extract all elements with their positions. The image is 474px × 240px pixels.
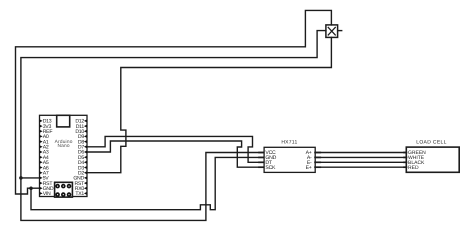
J1 pin stubs — [403, 153, 407, 168]
U1 ICSP header — [55, 182, 73, 197]
svg-text:TX1: TX1 — [75, 191, 84, 197]
wire GND net: lamp top pin to Arduino GND pin — [16, 10, 332, 194]
U1 left pin labels D13..VIN — [43, 119, 54, 198]
IC U1 Arduino Nano — [40, 115, 88, 197]
wire HX711 E- to load cell BLACK — [315, 161, 406, 163]
U1 USB connector notch — [57, 115, 70, 127]
wire HX711 E+ to load cell RED — [315, 166, 406, 168]
J1 pin labels GREEN WHITE BLACK RED — [408, 150, 426, 171]
U2 right pin labels A+ A- E- E+ — [306, 150, 312, 171]
U1 value label "Arduino Nano" — [55, 139, 73, 149]
U1 pin arrows — [40, 119, 87, 194]
lamp X1 (box with X symbol) — [326, 25, 343, 38]
U1 body — [40, 115, 88, 196]
svg-text:LOAD CELL: LOAD CELL — [416, 139, 447, 145]
wire D6 net: Arduino D6 to HX711 SCK — [87, 141, 264, 167]
U2 pin stubs — [258, 153, 321, 168]
U1 right pin labels D12..TX1 — [73, 119, 85, 198]
svg-text:VIN: VIN — [43, 191, 51, 197]
wire HX711 A+ to load cell GREEN — [315, 152, 406, 154]
svg-text:Nano: Nano — [57, 143, 69, 149]
wire D7 net: Arduino D7 to HX711 DT — [87, 136, 264, 162]
svg-text:SCK: SCK — [265, 165, 276, 171]
wire HX711 A- to load cell WHITE — [315, 156, 406, 158]
wire D2 net: lamp bottom pin to Arduino D2 pin (jog crossing) — [87, 37, 331, 172]
wire 5V net: lamp left pin to HX711 VCC pin — [21, 31, 326, 221]
junction dot GND net — [29, 186, 33, 190]
U2 left pin labels VCC GND DT SCK — [265, 150, 276, 171]
IC U2 HX711 module — [258, 139, 321, 172]
U2 body — [264, 147, 315, 172]
svg-text:HX711: HX711 — [281, 139, 297, 145]
junction dot 5V net — [19, 176, 23, 180]
wire 5V net: junction to Arduino 5V pin — [21, 177, 39, 179]
svg-text:RED: RED — [408, 165, 419, 171]
load cell J1 — [403, 139, 459, 172]
wire GND net: junction to HX711 GND pin (with hop over 5V vertical) — [31, 157, 264, 209]
J1 body — [406, 147, 459, 172]
svg-text:E+: E+ — [306, 165, 312, 171]
